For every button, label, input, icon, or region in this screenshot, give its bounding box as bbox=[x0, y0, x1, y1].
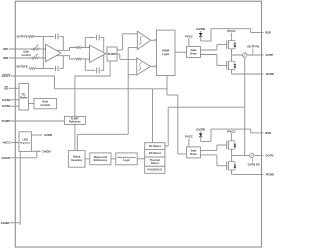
svg-text:BSN: BSN bbox=[265, 131, 271, 135]
svg-text:Drive: Drive bbox=[190, 152, 197, 156]
svg-text:PGND: PGND bbox=[266, 172, 274, 176]
svg-text:Reference: Reference bbox=[69, 121, 81, 124]
svg-text:Control: Control bbox=[22, 53, 31, 57]
svg-text:OUTN: OUTN bbox=[266, 153, 274, 157]
svg-text:BSP: BSP bbox=[265, 31, 271, 35]
svg-text:Detect: Detect bbox=[151, 162, 159, 165]
svg-text:GVDD: GVDD bbox=[1, 156, 9, 160]
svg-text:OUTP FB: OUTP FB bbox=[247, 44, 259, 48]
svg-text:Logic: Logic bbox=[123, 159, 130, 162]
svg-text:OUTN FB: OUTN FB bbox=[248, 162, 260, 166]
svg-text:OUTP FB: OUTP FB bbox=[17, 35, 28, 38]
svg-text:AVDD: AVDD bbox=[44, 133, 52, 137]
svg-text:DVDD: DVDD bbox=[43, 149, 51, 153]
svg-text:GVDD: GVDD bbox=[196, 128, 206, 132]
svg-text:PGND: PGND bbox=[266, 72, 274, 76]
svg-text:GAIN0: GAIN0 bbox=[2, 98, 11, 102]
svg-text:PVCC: PVCC bbox=[185, 34, 193, 38]
svg-text:GVDD: GVDD bbox=[196, 27, 206, 31]
svg-text:PVCC: PVCC bbox=[227, 129, 236, 133]
svg-text:References: References bbox=[94, 159, 108, 162]
svg-text:Regulator: Regulator bbox=[20, 141, 30, 144]
svg-text:Drive: Drive bbox=[190, 51, 197, 55]
svg-text:FAULT: FAULT bbox=[2, 74, 11, 78]
svg-text:GAIN1: GAIN1 bbox=[2, 104, 11, 108]
svg-text:Control: Control bbox=[41, 103, 51, 107]
svg-text:LDO: LDO bbox=[22, 137, 27, 141]
svg-text:AVCC: AVCC bbox=[3, 141, 12, 145]
svg-text:INN: INN bbox=[3, 56, 8, 60]
svg-text:PVCC: PVCC bbox=[185, 135, 193, 139]
svg-text:PLIMIT: PLIMIT bbox=[2, 119, 11, 123]
svg-text:AGND: AGND bbox=[1, 221, 10, 225]
svg-text:OUTN FB: OUTN FB bbox=[16, 66, 27, 69]
svg-text:Buffer: Buffer bbox=[20, 97, 27, 100]
svg-text:UVLO/OVLO: UVLO/OVLO bbox=[147, 169, 162, 172]
svg-text:PLIMIT: PLIMIT bbox=[108, 52, 117, 56]
svg-text:SD: SD bbox=[4, 86, 8, 90]
svg-text:Generator: Generator bbox=[71, 159, 82, 162]
svg-text:PVCC: PVCC bbox=[227, 29, 236, 33]
svg-text:OC Detect: OC Detect bbox=[149, 152, 161, 155]
svg-text:OUTP: OUTP bbox=[266, 53, 274, 57]
svg-text:INP: INP bbox=[3, 47, 8, 51]
svg-text:SC Detect: SC Detect bbox=[149, 145, 161, 148]
svg-text:Logic: Logic bbox=[162, 52, 170, 56]
